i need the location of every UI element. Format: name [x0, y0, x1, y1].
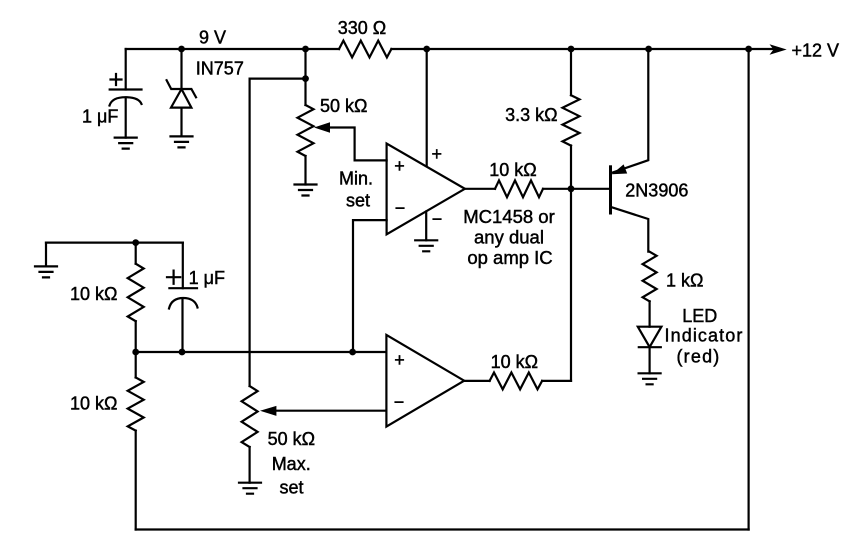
node junction dot collector-base node: [568, 185, 575, 192]
op-amp U1A V+ power pin wire: [426, 49, 428, 166]
resistor R3 3.3k zigzag: [563, 95, 580, 145]
svg-text:LED: LED: [682, 306, 717, 326]
node junction dot 3.3k branch at rail: [568, 46, 575, 53]
transistor Q1 base bar: [609, 167, 612, 213]
wire R4 to junction: [543, 188, 571, 190]
svg-text:10 kΩ: 10 kΩ: [70, 284, 117, 304]
resistor R6 10k zigzag: [128, 264, 144, 322]
ground below C1: [115, 138, 137, 149]
svg-text:10 kΩ: 10 kΩ: [489, 160, 536, 180]
svg-text:50 kΩ: 50 kΩ: [320, 96, 367, 116]
resistor R3 3.3k top wire: [570, 49, 572, 95]
ground below op-amp U1A: [415, 240, 437, 251]
wire op-amp U1B output: [464, 380, 489, 382]
svg-text:−: −: [394, 392, 405, 412]
resistor R6 bottom wire: [135, 321, 137, 352]
svg-text:IN757: IN757: [196, 59, 244, 79]
transistor Q1 2N3906 base wire: [571, 188, 609, 190]
svg-text:+: +: [394, 350, 405, 370]
wire divider node to op-amp U1B: [136, 351, 387, 353]
op-amp U1B triangle: [386, 335, 464, 427]
op-amp U1A V- power pin wire: [425, 212, 427, 241]
svg-text:3.3 kΩ: 3.3 kΩ: [505, 105, 557, 125]
svg-text:set: set: [279, 477, 303, 497]
capacitor C1 1uF wire from rail: [125, 49, 127, 90]
node junction dot node A lower: [302, 75, 309, 82]
node junction dot feedback at node wire: [349, 349, 356, 356]
svg-text:any dual: any dual: [474, 227, 544, 248]
wire LED to ground: [648, 347, 650, 373]
potentiometer R2 bottom wire: [304, 156, 306, 185]
potentiometer R8 wiper arrow shaft: [272, 410, 386, 412]
svg-text:330 Ω: 330 Ω: [338, 18, 387, 38]
wire left ground drop: [45, 243, 47, 267]
svg-text:Min.: Min.: [339, 169, 373, 189]
wire mid vertical from node down to lower 10k: [570, 189, 572, 381]
svg-text:+: +: [432, 144, 443, 164]
svg-text:MC1458 or: MC1458 or: [463, 206, 555, 227]
resistor R3 bottom wire: [570, 146, 572, 189]
wire ground branch top of divider: [46, 242, 183, 244]
capacitor C2 1uF top wire: [182, 243, 184, 289]
node junction dot op-amp V+ branch at rail: [423, 46, 430, 53]
svg-text:+12 V: +12 V: [792, 41, 840, 61]
capacitor C1 bottom wire: [125, 98, 127, 138]
ground below R2: [295, 185, 317, 196]
potentiometer R2 wiper arrow shaft: [327, 128, 387, 161]
potentiometer R2 50k min set top wire: [304, 79, 306, 105]
potentiometer R8 wiper arrowhead: [260, 406, 276, 416]
zener diode D1 IN757 wire from rail: [180, 49, 182, 89]
wire bottom rail: [136, 528, 749, 530]
potentiometer R2 50k min set zigzag: [298, 105, 314, 156]
svg-text:+: +: [394, 156, 405, 176]
svg-text:1 kΩ: 1 kΩ: [666, 271, 703, 291]
svg-text:Max.: Max.: [272, 454, 311, 474]
transistor Q1 emitter diagonal: [612, 49, 649, 173]
svg-text:9 V: 9 V: [199, 28, 226, 48]
capacitor C2 plus sign: [167, 271, 180, 284]
zener diode D1 bottom wire: [180, 108, 182, 137]
node junction dot divider mid at R6: [132, 349, 139, 356]
resistor R7 bottom wire: [135, 431, 137, 530]
wire right border vertical: [747, 49, 749, 530]
svg-text:−: −: [432, 209, 443, 229]
LED LED1 triangle: [638, 327, 662, 347]
svg-text:Indicator: Indicator: [665, 326, 744, 346]
resistor R4 10k (upper): [495, 180, 543, 197]
resistor R9 10k (lower) zigzag: [490, 373, 543, 390]
capacitor C2 curved bottom plate: [169, 298, 198, 309]
ground left of divider: [35, 266, 57, 277]
svg-text:set: set: [346, 190, 370, 210]
wire R9 up to node: [542, 380, 571, 382]
svg-text:10 kΩ: 10 kΩ: [70, 394, 117, 414]
node junction dot divider mid at C2: [179, 349, 186, 356]
resistor R6 10k top wire: [135, 243, 137, 264]
wire top rail right segment to +12V: [391, 48, 773, 50]
LED LED1 cathode bar: [639, 346, 661, 348]
zener diode D1 triangle: [171, 89, 191, 108]
ground below R8: [239, 483, 261, 494]
svg-text:−: −: [395, 198, 406, 218]
wire top rail left segment (9V rail): [126, 48, 339, 50]
capacitor C1 curved bottom plate: [110, 97, 142, 105]
potentiometer R8 bottom wire: [249, 447, 251, 483]
node junction dot right border at rail: [745, 46, 752, 53]
capacitor C2 bottom wire: [181, 299, 183, 352]
svg-text:10 kΩ: 10 kΩ: [491, 352, 538, 372]
capacitor C1 plus sign: [111, 74, 122, 85]
resistor R1 330 ohm: [339, 41, 391, 58]
svg-text:(red): (red): [676, 347, 720, 367]
transistor Q1 collector diagonal: [612, 207, 649, 252]
potentiometer R2 wiper arrowhead: [314, 122, 330, 132]
resistor R5 1k zigzag: [643, 252, 657, 302]
resistor R7 10k top wire: [135, 352, 137, 378]
op-amp U1A triangle: [387, 144, 465, 235]
svg-text:50 kΩ: 50 kΩ: [268, 429, 315, 449]
node junction dot emitter branch at rail: [645, 46, 652, 53]
ground below LED1: [639, 373, 661, 384]
svg-text:1 μF: 1 μF: [189, 268, 225, 288]
node junction dot zener at rail: [178, 46, 185, 53]
transistor Q1 emitter arrowhead: [612, 164, 627, 174]
wire R5 to LED: [648, 301, 650, 326]
capacitor C1 top plate: [110, 88, 142, 90]
resistor R7 10k zigzag: [128, 378, 144, 431]
node junction dot node A at rail: [302, 46, 309, 53]
wire node A drop: [304, 49, 306, 79]
svg-text:op amp IC: op amp IC: [467, 247, 552, 268]
potentiometer R8 50k max set zigzag: [242, 386, 258, 447]
capacitor C2 top plate: [169, 287, 197, 289]
svg-text:2N3906: 2N3906: [625, 181, 688, 201]
zener diode D1 cathode bar with bent ends: [167, 80, 196, 97]
+12V arrowhead: [770, 44, 787, 55]
wire branch to max pot top: [250, 79, 306, 386]
ground below D1: [171, 136, 193, 147]
node junction dot divider top: [132, 239, 139, 246]
wire op-amp U1A inverting input feedback: [353, 220, 387, 352]
wire op-amp U1A output: [465, 188, 495, 190]
svg-text:1 μF: 1 μF: [82, 107, 118, 127]
